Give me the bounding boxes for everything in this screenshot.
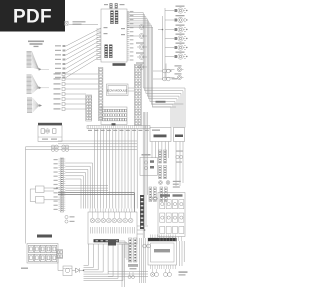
wire harness run bus-to-panel 5 — [127, 21, 177, 128]
terminal block TB1 — [103, 109, 115, 121]
fuse panel header labels — [160, 194, 183, 196]
wire X5 run 6 (bend down) — [65, 179, 81, 209]
wire harness lead 6 (diagonal) — [55, 48, 101, 70]
wire TB3 pin 7 down — [112, 129, 114, 209]
plug P7 — [159, 166, 162, 179]
plug P6 — [164, 150, 167, 163]
relay board K10 top pins — [90, 209, 135, 212]
J1 internal pin rows — [104, 27, 126, 35]
fuse panel F1 outline — [158, 193, 185, 237]
wire TB3 pin 5 down — [106, 129, 108, 209]
connector strip X5 (ladder) — [58, 158, 65, 212]
wire X5 run 5 (bend down) — [65, 176, 83, 209]
fuse row F1-2 — [160, 213, 184, 222]
wire TB3 pin 12 down — [127, 129, 129, 209]
plug P2 — [154, 187, 157, 202]
relay K2 — [127, 34, 147, 39]
solenoid Y1 — [136, 42, 147, 49]
plug P4 — [165, 187, 168, 202]
svg-text:ECM MODULE: ECM MODULE — [107, 88, 127, 92]
J1 left-side pins 26-41 — [96, 29, 101, 60]
connector block X3 — [98, 68, 103, 121]
wire TB3 pin 15 down — [136, 129, 138, 209]
wire X5 run 1 (bend down) — [65, 163, 92, 209]
wire TB3 pin 11 down — [124, 129, 126, 209]
plug P1 — [149, 187, 152, 202]
TB3 terminal labels — [88, 130, 149, 131]
X7 X8 labels — [128, 264, 138, 269]
shielded cable pair W8 — [58, 193, 135, 213]
connector block X1 (pin matrix) — [134, 65, 141, 126]
J1 part number label — [113, 63, 126, 66]
wire W5 (left drop) — [25, 147, 27, 244]
connector strip J1b — [115, 11, 118, 25]
switch S7 with wire — [54, 103, 87, 106]
switch S2 with wire — [54, 78, 99, 81]
wire SP1 bend 1 — [116, 241, 125, 258]
inline connector CN3 — [143, 244, 151, 248]
panel bypass wires W10 — [180, 241, 185, 266]
main harness wire H3 — [26, 146, 138, 148]
wire SP1 bend 2 — [118, 243, 128, 261]
bottom bus wire 1 — [108, 271, 148, 273]
driver module U3 — [36, 187, 61, 203]
wire TB3 pin 3 down — [100, 129, 102, 209]
connector pair CN6 — [149, 197, 157, 201]
svg-text:PDF: PDF — [13, 7, 52, 28]
connector strip X7 — [129, 238, 132, 262]
relay board K10 lamp row — [90, 212, 133, 223]
module U4 top pins — [151, 235, 176, 239]
wire harness run bus-to-panel 1 — [127, 13, 185, 128]
junction box JB1 outline — [101, 107, 127, 125]
wire TB3 pin 4 down — [103, 129, 105, 209]
relay board K10 outline — [88, 212, 137, 244]
wire X5 run 3 (bend down) — [65, 169, 88, 208]
wire K10 out 7 — [84, 244, 119, 278]
bus drop wires W7 — [143, 112, 147, 238]
wire harness run bus-to-panel 4 — [127, 19, 179, 128]
wire X5 run straight 3 — [65, 190, 108, 192]
relay K1 — [127, 25, 147, 30]
sensor pair B2 — [159, 181, 170, 185]
connector pair CN5 — [164, 269, 172, 277]
wire harness run bus-to-panel 3 — [127, 17, 181, 128]
RP1 output wires — [152, 142, 169, 159]
switch S8 with wire — [54, 108, 87, 111]
wire SP1 bend 3 — [119, 244, 129, 262]
wire harness lead 5 (diagonal) — [55, 44, 101, 65]
wire X5 run 4 (bend down) — [65, 173, 85, 209]
motor M1 — [58, 259, 72, 276]
wire harness lead 2 (diagonal) — [55, 32, 101, 52]
connector strip X9 (keyed) — [140, 195, 144, 229]
driver module U2 with feedback loop — [30, 186, 60, 202]
harness drop wires W6 — [122, 238, 145, 287]
wire TB3 pin 13 down — [130, 129, 132, 209]
wire harness lead 7 (diagonal) — [55, 52, 101, 74]
injector INJ5 — [165, 43, 188, 51]
bottom bus wire 2 — [108, 273, 148, 275]
feeder wire W3 (vertical) — [164, 8, 166, 80]
connector J2 (pigtail) — [104, 3, 125, 8]
switch S1 with wire — [54, 73, 99, 76]
panel net labels — [173, 181, 181, 188]
relay board K20 relay cells — [29, 245, 57, 261]
switch S4 with wire — [54, 88, 99, 91]
inline connector pair CN2 — [62, 145, 69, 151]
PDF preview badge — [0, 0, 65, 32]
terminal strip TB3 — [87, 126, 150, 129]
main harness wire H1 — [58, 140, 137, 142]
wire harness run bus-to-panel 2 — [127, 15, 183, 128]
connector strip J1d — [109, 45, 112, 59]
resistor pack RP2 — [174, 128, 185, 142]
alternator module G1 — [38, 123, 62, 142]
splice block SP1 — [108, 240, 116, 246]
connector strip J1a — [110, 11, 113, 25]
wire X5 run 2 (bend down) — [65, 166, 90, 208]
fuse row F1-1 — [160, 200, 184, 209]
harness merge fan W3 (net labels) — [27, 98, 42, 113]
solenoid Y2 — [136, 52, 147, 59]
plug P3 — [160, 187, 163, 202]
X5 pin labels — [54, 159, 58, 210]
glow plug R2 — [166, 72, 184, 80]
terminal block TB2 — [115, 109, 127, 121]
injector INJ6 — [165, 52, 188, 60]
wire TB3 pin 8 down — [115, 129, 117, 209]
sensor B1 with wire to ECU — [65, 21, 99, 25]
junction ties W9 — [137, 225, 148, 234]
wire harness lead 8 (diagonal) — [55, 56, 101, 79]
connector pair CN7 — [128, 272, 135, 279]
sensor B3 — [153, 69, 172, 73]
JB1 bottom tab — [112, 123, 116, 125]
wire harness run bus-to-panel 7 — [127, 25, 173, 127]
injector INJ3 — [165, 25, 188, 33]
injector INJ4 — [165, 34, 188, 42]
wire K10 out 2 — [84, 244, 94, 268]
panel-to-U4 wires — [160, 237, 182, 242]
module U1 (ECM MODULE) — [107, 84, 129, 96]
wire harness run bus-to-panel 6 — [127, 23, 175, 128]
wire harness lead 1 (diagonal) — [55, 28, 101, 47]
wire harness lead 4 (diagonal) — [55, 40, 101, 61]
injector INJ2 — [165, 15, 188, 23]
resistor pack RP1 — [150, 128, 171, 142]
schematic title block — [28, 41, 44, 48]
solenoid Y3 — [136, 62, 147, 69]
power feed wire with label — [152, 101, 184, 107]
wire harness lead 3 (diagonal) — [55, 36, 101, 56]
bus tap junction — [158, 29, 163, 31]
connector pair CN4 — [151, 269, 159, 277]
wire TB3 pin 10 down — [121, 129, 123, 209]
J1 right-side pins 1-25 — [127, 12, 129, 60]
U4 reference label — [179, 271, 188, 275]
glow plug R1 — [166, 64, 184, 72]
label MAIN RELAY JUNCTION — [37, 235, 52, 238]
wire U1 to X1 — [128, 88, 134, 91]
wire TB3 pin 1 down — [94, 129, 96, 209]
relay board K10 pin comb — [91, 227, 135, 234]
RP2 output wires — [176, 142, 183, 187]
main harness wire H4 — [26, 149, 138, 151]
main harness wire H2 — [58, 143, 137, 145]
injector INJ1 — [165, 6, 188, 14]
sensor pair B5 — [176, 151, 183, 163]
wire X5 run straight 2 — [65, 187, 108, 189]
J1 right pin labels — [130, 11, 134, 61]
wire TB3 pin 14 down — [133, 129, 135, 209]
relay board K20 outline — [27, 244, 58, 264]
harness merge fan W2 (net labels) — [27, 75, 50, 94]
fuse row F1-3 — [160, 227, 184, 234]
diode D30 — [72, 268, 84, 273]
wire TB3 pin 6 down — [109, 129, 111, 209]
connector strip X8 — [134, 238, 137, 262]
connector strip J1c — [105, 45, 108, 59]
label FAX RELAY LOWER — [94, 239, 120, 242]
contact pair S20 — [65, 215, 75, 223]
inline connector pair CN1 — [51, 145, 58, 151]
feeder wire W4 (vertical) — [162, 16, 164, 80]
page number text — [21, 268, 28, 269]
sensor B4 — [153, 77, 178, 81]
module U4 bottom pins — [151, 265, 176, 269]
wire TB3 pin 9 down — [118, 129, 120, 209]
plug P8 — [164, 166, 167, 179]
wire harness run bus-to-panel 8 — [127, 27, 171, 127]
wire X5 run straight 1 — [65, 185, 108, 187]
wire K10 out 1 — [84, 244, 89, 266]
wire K10 out 8 — [84, 244, 123, 281]
ignition module U5 — [140, 154, 158, 175]
wire K10 out 4 — [84, 244, 104, 272]
wire K10 out 5 — [84, 244, 109, 274]
wire TB3 pin 2 down — [97, 129, 99, 209]
switch S6 with wire — [54, 98, 87, 101]
bottom bus wire 3 — [108, 276, 148, 278]
switch S3 with wire — [54, 83, 99, 86]
harness merge fan W1 (net labels) — [27, 51, 50, 70]
ECU main block J1 outline — [101, 9, 127, 62]
switch S5 with wire — [54, 93, 87, 96]
plug P5 — [159, 150, 162, 163]
wire K10 out 6 — [84, 244, 114, 276]
connector X6 on K20 — [57, 250, 63, 259]
module U4 (controller) — [148, 238, 177, 265]
connector block X4 — [86, 95, 92, 121]
wire K10 out 3 — [84, 244, 99, 270]
